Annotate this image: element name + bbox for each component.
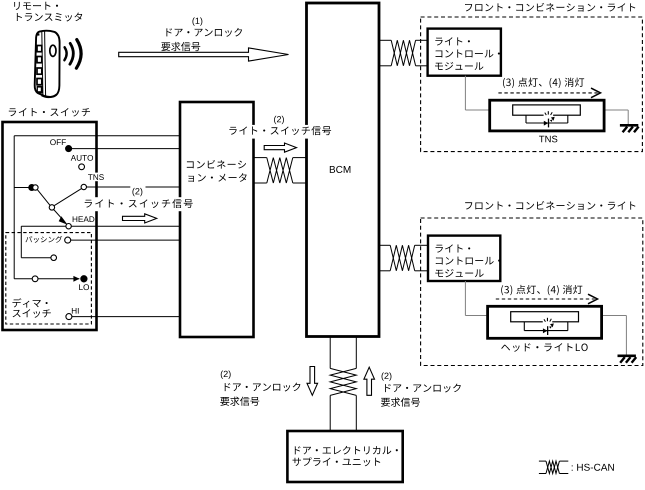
lamp TNS — [490, 100, 629, 131]
contact passing lever — [51, 255, 57, 261]
door electrical supply unit box — [287, 431, 402, 482]
label headlight LO — [501, 343, 587, 352]
wire HEAD row — [21, 225, 180, 227]
front combination light lower dashed box — [421, 218, 643, 366]
wire pivot feed — [14, 187, 32, 189]
label HI — [72, 308, 79, 314]
label remote transmitter — [14, 2, 82, 22]
arrow (2) down — [307, 367, 318, 396]
BCM box — [307, 3, 380, 337]
arrow (2) up — [364, 367, 375, 395]
label light switch title — [9, 108, 90, 117]
label HEAD — [73, 216, 95, 222]
label light control module upper — [435, 37, 500, 70]
dashed arrow upper — [498, 88, 600, 98]
lever mid to HEAD — [54, 210, 68, 225]
ground upper — [620, 110, 639, 132]
twisted pair HS-CAN BCM-door unit — [330, 337, 356, 432]
label (3)(4) lower — [501, 285, 582, 295]
twisted pair HS-CAN BCM-upper module — [379, 40, 428, 66]
label LO — [79, 284, 89, 290]
wire left bus — [13, 136, 15, 279]
label TNS lamp — [539, 136, 557, 143]
lever pivot to mid — [37, 190, 50, 206]
dimmer switch dashed box — [6, 233, 92, 324]
wire module to lamp upper — [465, 76, 489, 110]
label (2) door unlock right — [381, 372, 461, 406]
radio waves — [64, 40, 81, 69]
light switch box — [3, 122, 97, 330]
wire top row — [14, 135, 180, 137]
label HS-CAN — [572, 464, 614, 471]
contact mid — [49, 205, 54, 210]
label (3)(4) upper — [503, 78, 584, 88]
wire LO row — [14, 278, 79, 280]
light control module upper box — [428, 29, 501, 76]
contact OFF dot — [66, 146, 72, 152]
wire TNS row — [86, 186, 180, 188]
contact HI — [66, 314, 72, 320]
contact LO dot — [81, 276, 87, 282]
dashed arrow lower — [496, 294, 598, 304]
label combination meter — [187, 160, 247, 182]
contact HEAD — [66, 224, 71, 229]
contact passing — [65, 237, 71, 243]
label passing — [25, 236, 62, 243]
combination meter box — [180, 102, 254, 337]
arrowhead LO — [73, 276, 79, 282]
contact pivot ring — [33, 185, 38, 190]
front combination light upper dashed box — [421, 17, 643, 152]
label dimmer switch — [12, 298, 50, 317]
wire HI row — [72, 316, 180, 318]
arrow (1) remote to BCM — [119, 48, 289, 61]
label TNS switch — [86, 173, 104, 182]
label (1) door unlock request — [161, 17, 242, 51]
lever mid to TNS — [54, 189, 81, 206]
label AUTO — [71, 155, 93, 161]
wire OFF row — [69, 148, 180, 150]
contact TNS — [81, 184, 86, 189]
light control module lower box — [428, 236, 500, 281]
arrow (2) upper — [264, 143, 296, 152]
wire passing drop — [21, 226, 51, 258]
label light control module lower — [435, 244, 500, 277]
wire passing row — [71, 239, 180, 241]
label front combination light upper — [465, 3, 635, 12]
label OFF — [50, 139, 66, 145]
twisted pair HS-CAN BCM-lower module — [379, 245, 428, 270]
label (2) light switch signal upper — [228, 116, 332, 139]
ground lower — [618, 316, 637, 363]
contact pivot dot — [29, 185, 35, 191]
label BCM — [330, 166, 351, 173]
remote transmitter icon — [35, 31, 60, 98]
label front combination light lower — [465, 201, 635, 210]
lamp headlight LO — [488, 306, 627, 338]
label (2) light switch signal left — [84, 186, 194, 211]
label (2) door unlock left — [220, 370, 300, 405]
label door electrical supply unit — [292, 446, 397, 466]
wire module to lamp lower — [465, 281, 487, 316]
contact LO lever — [32, 276, 38, 282]
legend HS-CAN symbol — [539, 461, 568, 473]
contact AUTO — [79, 164, 85, 170]
arrow (2) left — [123, 214, 157, 223]
twisted pair HS-CAN combi-BCM — [254, 158, 307, 183]
